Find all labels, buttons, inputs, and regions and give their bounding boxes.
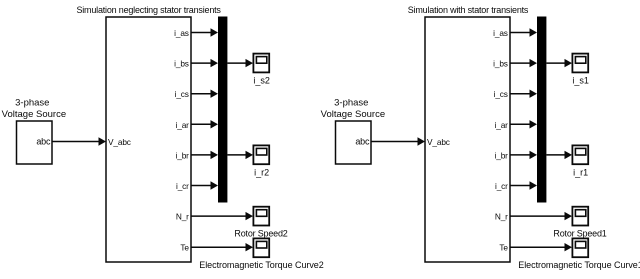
svg-text:i_br: i_br [495,150,509,160]
wire: mux to scope i_r2 [227,151,253,159]
svg-text:Te: Te [180,243,189,253]
wire: i_cs to mux (right) [510,90,537,98]
svg-text:i_s2: i_s2 [253,76,270,86]
wire: mux to scope i_s1 [546,59,572,67]
scope i_r2 [253,145,269,177]
source block: 3-phase Voltage Source (left) [17,121,53,164]
wire: i_bs to mux (left) [191,59,218,67]
svg-text:Electromagnetic Torque Curve2: Electromagnetic Torque Curve2 [199,260,323,270]
svg-text:Electromagnetic Torque Curve1: Electromagnetic Torque Curve1 [518,260,640,270]
svg-text:i_br: i_br [176,150,190,160]
scope i_s1 [572,54,589,86]
label: 3-phase Voltage Source (left) [2,98,66,120]
svg-text:i_as: i_as [493,28,508,38]
svg-text:i_as: i_as [174,28,189,38]
label: 3-phase Voltage Source (right) [321,98,385,120]
svg-text:Voltage Source: Voltage Source [321,109,385,120]
mux bar (right) [537,17,546,203]
wire: source abc to subsystem V_abc (left) [52,137,106,145]
svg-text:i_cr: i_cr [495,181,508,191]
svg-text:V_abc: V_abc [427,137,450,147]
svg-text:Te: Te [499,243,508,253]
svg-text:i_s1: i_s1 [572,76,589,86]
svg-text:i_cr: i_cr [176,181,189,191]
wire: i_ar to mux (right) [510,120,537,128]
subsystem block: Simulation with stator transients [408,5,529,262]
svg-text:i_bs: i_bs [174,59,189,69]
svg-text:N_r: N_r [495,212,508,222]
scope Electromagnetic Torque Curve2 [199,238,323,270]
svg-text:Rotor Speed1: Rotor Speed1 [553,229,606,239]
mux bar (left) [218,17,227,203]
scope Electromagnetic Torque Curve1 [518,238,640,270]
wire: i_as to mux (right) [510,28,537,36]
svg-text:3-phase: 3-phase [15,98,49,109]
wire: i_cs to mux (left) [191,90,218,98]
wire: N_r to Rotor Speed1 scope [510,212,572,220]
source block: 3-phase Voltage Source (right) [336,121,372,164]
wire: mux to scope i_s2 [227,59,253,67]
wire: i_cr to mux (right) [510,181,537,189]
scope i_r1 [572,145,588,177]
scope i_s2 [253,54,270,86]
svg-text:i_cs: i_cs [175,89,189,99]
wire: i_br to mux (left) [191,151,218,159]
svg-text:i_bs: i_bs [493,59,508,69]
svg-text:i_r2: i_r2 [254,167,269,177]
svg-text:i_r1: i_r1 [573,167,588,177]
wire: Te to Electromagnetic Torque Curve2 scope [191,243,253,251]
scope Rotor Speed2 [234,207,287,239]
wire: N_r to Rotor Speed2 scope [191,212,253,220]
subsystem block: Simulation neglecting stator transients [76,5,221,262]
svg-text:V_abc: V_abc [108,137,131,147]
svg-text:N_r: N_r [176,212,189,222]
wire: i_ar to mux (left) [191,120,218,128]
svg-text:Simulation neglecting stator t: Simulation neglecting stator transients [76,5,221,15]
svg-text:Rotor Speed2: Rotor Speed2 [234,229,287,239]
svg-text:i_ar: i_ar [495,120,509,130]
wire: mux to scope i_r1 [546,151,572,159]
scope Rotor Speed1 [553,207,606,239]
wire: i_cr to mux (left) [191,181,218,189]
svg-text:i_cs: i_cs [494,89,508,99]
svg-text:abc: abc [355,137,370,147]
wire: i_bs to mux (right) [510,59,537,67]
wire: source abc to subsystem V_abc (right) [371,137,425,145]
svg-text:i_ar: i_ar [176,120,190,130]
wire: i_br to mux (right) [510,151,537,159]
svg-text:Voltage Source: Voltage Source [2,109,66,120]
wire: Te to Electromagnetic Torque Curve1 scope [510,243,572,251]
svg-text:abc: abc [36,137,51,147]
svg-text:Simulation with stator transie: Simulation with stator transients [408,5,529,15]
wire: i_as to mux (left) [191,28,218,36]
svg-text:3-phase: 3-phase [334,98,368,109]
